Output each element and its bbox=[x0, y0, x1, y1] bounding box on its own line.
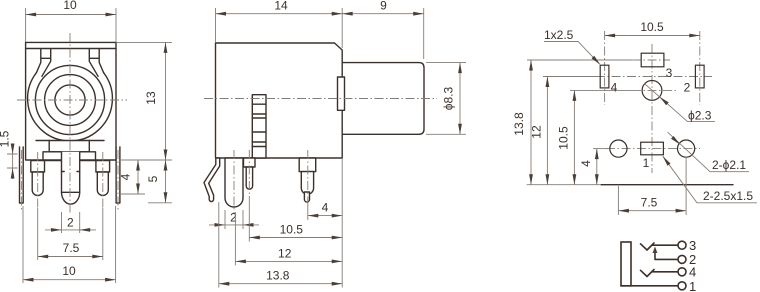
pad4/pad2 row centerline bbox=[543, 76, 596, 78]
dim 9 line bbox=[342, 13, 424, 15]
svg-text:14: 14 bbox=[274, 0, 288, 13]
pin 4 wire bbox=[653, 271, 679, 273]
svg-text:4: 4 bbox=[119, 173, 133, 180]
dim 2 line and outside arrows bbox=[45, 229, 96, 231]
dim 9 extension line bbox=[423, 8, 425, 59]
dim 4 left line bbox=[596, 149, 598, 185]
side view dimensions bbox=[209, 0, 466, 288]
dim 10.5 top line bbox=[605, 35, 700, 37]
left ear outline bbox=[36, 49, 50, 76]
contact stack division lines bbox=[252, 104, 266, 146]
body outline bbox=[26, 42, 116, 160]
leader 1x2.5 bbox=[544, 42, 600, 64]
leader 2-2.5x1.5 bbox=[663, 156, 757, 203]
latch detail on right edge bbox=[338, 77, 345, 110]
dim 13.8 line bbox=[219, 283, 342, 285]
svg-text:ϕ8.3: ϕ8.3 bbox=[442, 86, 456, 110]
dim 1.5 line bbox=[12, 144, 14, 179]
small pin collar bbox=[244, 158, 256, 167]
right mounting tab bbox=[116, 146, 120, 203]
small pin center line bbox=[248, 150, 250, 196]
pad3 row centerline bbox=[527, 59, 632, 61]
right pin center line bbox=[102, 152, 104, 208]
dim 4 line bbox=[137, 160, 139, 194]
shield outer circle (arc, top hidden by ears) bbox=[28, 73, 113, 141]
svg-text:1x2.5: 1x2.5 bbox=[544, 28, 574, 42]
svg-text:ϕ2.3: ϕ2.3 bbox=[688, 109, 712, 123]
jack sleeve body bbox=[621, 242, 631, 286]
dim 10 bottom line bbox=[23, 279, 116, 281]
dim 13.8 extension line bbox=[218, 202, 220, 288]
small pin bbox=[246, 167, 252, 189]
body top inner line bbox=[26, 48, 116, 50]
dim 10.5 left line bbox=[573, 90, 575, 184]
board edge extension thin bbox=[527, 184, 601, 186]
right ear outline bbox=[89, 49, 103, 76]
svg-text:4: 4 bbox=[579, 160, 593, 167]
center contact circle bbox=[55, 85, 85, 115]
switch arrow bbox=[653, 247, 658, 254]
svg-text:9: 9 bbox=[380, 0, 387, 13]
dim 13.8 left line bbox=[530, 60, 532, 185]
svg-text:5: 5 bbox=[146, 175, 160, 182]
bottom row centerline bbox=[593, 148, 608, 150]
dim 2 extension lines bbox=[225, 210, 243, 229]
dim 2 extension lines bbox=[62, 212, 80, 233]
dim 10.5 extension line bbox=[248, 196, 250, 242]
pad 4 bbox=[600, 65, 609, 88]
center pin chord bbox=[62, 191, 80, 193]
svg-text:13.8: 13.8 bbox=[512, 112, 526, 136]
pin 1 terminal circle bbox=[678, 282, 686, 290]
pad 2 centerline vertical bbox=[699, 31, 701, 105]
dim 2 line and outside arrows bbox=[209, 224, 259, 226]
right pin stub bbox=[304, 192, 309, 202]
dim 13 right extension lines bbox=[117, 42, 172, 160]
dim 4 line bbox=[308, 215, 342, 217]
horizontal center line bbox=[17, 99, 127, 101]
dim 10 bottom extension lines bbox=[23, 206, 116, 283]
svg-text:4: 4 bbox=[611, 81, 618, 95]
center pin bbox=[62, 152, 80, 204]
right pin body bbox=[301, 172, 313, 195]
dim 7.5 extension lines bbox=[618, 157, 686, 215]
middle column centerline bbox=[651, 44, 653, 173]
hole left phi2.1 bbox=[610, 140, 627, 157]
pedestal lower block bbox=[43, 152, 96, 161]
vertical center line bbox=[69, 33, 71, 213]
svg-text:2: 2 bbox=[67, 216, 74, 230]
dim 4 extension line bbox=[121, 193, 145, 195]
pin 3 terminal circle bbox=[678, 241, 686, 249]
big pin center line bbox=[233, 150, 235, 214]
svg-text:2-ϕ2.1: 2-ϕ2.1 bbox=[712, 158, 746, 172]
hole row centerline bbox=[570, 89, 632, 91]
dim 12 left line bbox=[546, 77, 548, 185]
svg-text:2: 2 bbox=[684, 81, 691, 95]
front view dimensions bbox=[0, 0, 172, 283]
dim 1.5 extension lines bbox=[7, 154, 18, 168]
dim phi8.3 line bbox=[459, 63, 461, 135]
hole right phi2.1 bbox=[678, 140, 695, 157]
left pin collar bbox=[31, 161, 45, 173]
shield flange circle bbox=[35, 65, 104, 134]
left tab center line bbox=[20, 150, 22, 212]
svg-text:10: 10 bbox=[63, 0, 77, 12]
hole phi2.3 bbox=[642, 81, 662, 101]
dim 10.5 line bbox=[249, 237, 342, 239]
dim 4 extension line bbox=[307, 205, 309, 220]
shared right extension line bbox=[341, 158, 343, 288]
dim 10 top line bbox=[26, 14, 116, 16]
left pin center line bbox=[37, 152, 39, 208]
dim 5 extension line bbox=[148, 202, 172, 204]
pad 1 bbox=[641, 142, 664, 155]
pin 3 wire bbox=[653, 244, 679, 246]
svg-text:3: 3 bbox=[666, 66, 673, 80]
dim 12 line bbox=[235, 260, 342, 262]
dim 5 line bbox=[165, 160, 167, 203]
right pin bbox=[97, 172, 108, 196]
dim 7.5 line bbox=[38, 256, 103, 258]
svg-text:10.5: 10.5 bbox=[640, 20, 664, 34]
svg-text:10.5: 10.5 bbox=[280, 223, 304, 237]
svg-text:7.5: 7.5 bbox=[63, 241, 80, 255]
pin 3 contact spring bbox=[641, 243, 655, 250]
leader phi2.3 bbox=[644, 83, 715, 121]
pin 4 terminal circle bbox=[678, 268, 686, 276]
svg-text:7.5: 7.5 bbox=[641, 196, 658, 210]
dim phi8.3 extension lines bbox=[426, 63, 466, 135]
bent hook pin bbox=[204, 158, 220, 202]
pedestal upper block bbox=[49, 141, 89, 152]
horizontal center line bbox=[204, 98, 437, 100]
contact stack bbox=[252, 95, 266, 158]
body outline bbox=[216, 43, 343, 158]
svg-text:4: 4 bbox=[322, 201, 329, 215]
barrel circle bbox=[45, 75, 96, 126]
svg-text:2-2.5x1.5: 2-2.5x1.5 bbox=[703, 189, 753, 203]
right pin center line bbox=[307, 150, 309, 206]
dim 13 line bbox=[165, 42, 167, 160]
board edge line thick bbox=[601, 184, 733, 186]
pin 2 wire bbox=[655, 251, 678, 260]
svg-text:2: 2 bbox=[230, 211, 237, 225]
pad 3 bbox=[641, 53, 664, 67]
leader 2-phi2.1 bbox=[668, 132, 750, 172]
dim 7.5 line bbox=[618, 210, 686, 212]
barrel bbox=[342, 63, 424, 135]
dim 10 top extension lines bbox=[26, 8, 116, 42]
dim 12 extension line bbox=[234, 212, 236, 265]
center pin notch bbox=[62, 171, 65, 173]
right tab center line bbox=[117, 150, 119, 212]
svg-text:10.5: 10.5 bbox=[557, 126, 571, 150]
svg-text:12: 12 bbox=[530, 125, 544, 139]
svg-text:1: 1 bbox=[689, 279, 696, 292]
svg-text:13.8: 13.8 bbox=[266, 269, 290, 283]
pin 4 contact spring bbox=[641, 270, 655, 277]
svg-text:12: 12 bbox=[278, 246, 292, 260]
pad 2 bbox=[695, 65, 704, 88]
svg-text:1: 1 bbox=[643, 156, 650, 170]
left mounting tab bbox=[20, 146, 24, 203]
right pin collar bbox=[96, 161, 110, 173]
dim 7.5 extension lines bbox=[38, 208, 103, 260]
shield big pin bbox=[225, 158, 243, 207]
svg-text:1.5: 1.5 bbox=[0, 130, 12, 147]
left pin bbox=[32, 172, 43, 196]
svg-text:3: 3 bbox=[689, 238, 696, 253]
dim 14 line bbox=[216, 13, 343, 15]
svg-text:10: 10 bbox=[62, 264, 76, 278]
pin 2 terminal circle bbox=[678, 255, 686, 263]
right pin collar bbox=[299, 158, 316, 172]
svg-text:13: 13 bbox=[144, 91, 158, 105]
pedestal ledge lines bbox=[36, 140, 104, 142]
pin 1 wire from sleeve bbox=[621, 285, 678, 287]
dim 14 extension lines bbox=[216, 8, 343, 48]
pad 4 centerline vertical bbox=[604, 31, 606, 105]
svg-text:4: 4 bbox=[689, 265, 696, 280]
